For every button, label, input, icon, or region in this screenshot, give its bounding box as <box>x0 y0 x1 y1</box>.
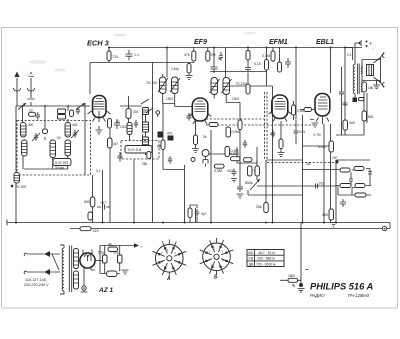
capacitor C33 <box>190 205 199 223</box>
resistor R31 <box>362 111 367 121</box>
trimmer arrows T2 <box>210 79 232 93</box>
capacitor C10 +47 <box>97 205 110 210</box>
svg-text:ECH 3: ECH 3 <box>87 39 110 48</box>
tone network row1 resistor <box>340 168 350 172</box>
capacitor C11 <box>187 113 192 121</box>
ground ECH3 <box>96 126 103 134</box>
svg-text:200 - 588 м: 200 - 588 м <box>257 257 275 261</box>
svg-text:EF9: EF9 <box>194 39 207 46</box>
coil L3b <box>65 140 71 156</box>
dashed AGC verticals <box>265 92 268 160</box>
coil L5 osc <box>126 109 131 119</box>
svg-text:200,220,245 V: 200,220,245 V <box>24 283 49 287</box>
tube EBL1 envelope <box>315 94 330 117</box>
coil box L7c <box>143 137 149 148</box>
resistor R15 0.5M <box>226 127 231 137</box>
capacitor C30 black <box>353 98 358 103</box>
wire heater line <box>180 223 390 229</box>
dashed detector line <box>267 162 336 164</box>
resistor R9 410k <box>329 141 334 152</box>
antenna plug 2 <box>28 72 35 107</box>
wire T1 links <box>163 74 175 107</box>
resistor R20 90k <box>248 166 253 176</box>
resistor R43 <box>246 51 250 61</box>
svg-text:4k7: 4k7 <box>113 142 118 146</box>
IF transformer T1 can A <box>160 77 167 94</box>
svg-text:47k: 47k <box>184 53 190 57</box>
trimmer arrows T1 <box>158 78 180 92</box>
svg-text:450: 450 <box>322 213 328 217</box>
svg-text:102: 102 <box>319 182 325 186</box>
pilot lamp <box>382 226 386 230</box>
svg-text:РАДИО: РАДИО <box>310 293 325 298</box>
wire filter links <box>95 246 138 274</box>
svg-text:25k: 25k <box>142 162 148 166</box>
svg-text:4μ7: 4μ7 <box>201 212 207 216</box>
wire mid vertical rails <box>93 115 303 223</box>
tube EF9 electrodes <box>189 101 212 124</box>
svg-text:25k: 25k <box>256 205 262 209</box>
svg-text:2,45μ: 2,45μ <box>171 67 179 71</box>
wire coil drops from antenna bus <box>23 103 86 175</box>
wire T2 links <box>214 95 240 186</box>
capacitor C28 detector <box>237 185 244 198</box>
svg-text:1302: 1302 <box>120 125 127 129</box>
svg-text:0,5÷2Ω: 0,5÷2Ω <box>55 160 68 165</box>
connector blob <box>299 283 303 287</box>
wire antenna input bus <box>16 106 90 223</box>
capacitor C40 102 <box>316 184 318 189</box>
svg-text:50: 50 <box>57 136 61 140</box>
ground speaker <box>373 81 380 89</box>
resistor R10 450 <box>329 209 334 220</box>
svg-text:1302: 1302 <box>232 97 239 101</box>
capacitor C37 blob <box>335 160 338 163</box>
resistor R38 <box>292 105 296 115</box>
mains lead 2 <box>27 271 60 273</box>
svg-text:AZ 1: AZ 1 <box>98 287 113 294</box>
capacitor C5 top <box>126 50 133 60</box>
misc value labels <box>96 53 352 173</box>
svg-text:1302: 1302 <box>166 97 173 101</box>
svg-text:300: 300 <box>28 123 34 127</box>
capacitor C4 cathode <box>114 119 120 129</box>
trimmer C22 arrow <box>71 130 79 138</box>
ground EBL1 cathode <box>330 223 337 227</box>
resistor R19 <box>244 158 253 162</box>
resistor R13 319 <box>80 227 91 231</box>
coil box L7b <box>143 122 149 132</box>
coil L2 <box>50 140 56 158</box>
switch S2 <box>141 99 153 113</box>
box 0.5+0.8 <box>125 146 152 154</box>
phono contact <box>191 158 195 162</box>
output terminals + - <box>355 41 362 46</box>
volume pot R21 <box>255 166 260 176</box>
svg-text:34F: 34F <box>306 162 312 166</box>
wire screen feed EBL1 <box>295 48 297 120</box>
antenna plug 1 <box>14 72 21 107</box>
capacitor C31 <box>243 140 247 148</box>
tone network row3 resistor <box>355 193 366 197</box>
svg-text:50μ: 50μ <box>113 251 119 255</box>
wire EF9 screen rail <box>210 71 267 73</box>
wire main ground bus <box>7 220 390 226</box>
rectifier AZ1 anodes <box>83 250 95 275</box>
pickup P1 <box>202 150 209 157</box>
svg-text:A: A <box>166 276 171 282</box>
resistor R27 top <box>107 51 111 61</box>
svg-text:+47: +47 <box>100 201 106 205</box>
resistor R37 <box>246 84 250 94</box>
wire feedback rail <box>336 93 367 135</box>
svg-text:1.1: 1.1 <box>134 53 139 57</box>
HT filter resistor R23 <box>108 247 118 252</box>
wire L7 links <box>145 115 147 156</box>
svg-text:КВ: КВ <box>249 251 254 255</box>
svg-text:0,003: 0,003 <box>230 152 239 156</box>
capacitor C12 <box>231 169 237 183</box>
svg-text:0,1: 0,1 <box>347 53 352 57</box>
capacitor C8 <box>285 58 291 68</box>
ground EF9 cathode <box>192 121 199 153</box>
coil L1b <box>22 140 28 156</box>
ground filter <box>120 270 129 275</box>
svg-text:0,15: 0,15 <box>254 62 261 66</box>
speaker clips <box>383 54 385 87</box>
waveband table frame <box>247 250 284 267</box>
resistor R30 <box>362 82 367 92</box>
tube ECH3 electrodes <box>88 99 111 122</box>
dashed AGC lines <box>206 119 316 125</box>
resistor R42 0,15 <box>266 48 268 87</box>
switch S1a <box>18 103 26 110</box>
svg-text:50: 50 <box>218 57 222 61</box>
EBL1 grid cap C27 <box>294 120 299 144</box>
cathode EF9 resistor R26 <box>194 135 198 145</box>
svg-text:0,3M: 0,3M <box>297 109 304 113</box>
tube ECH3 envelope <box>93 96 107 118</box>
capacitor C35 <box>245 66 251 73</box>
svg-text:303: 303 <box>133 110 139 114</box>
wire osc vertical rails <box>99 63 153 223</box>
wire HT bus drop to ECH3 anode <box>90 48 194 95</box>
IF transformer T2 can A <box>211 78 218 95</box>
svg-text:ПЧ-128kHz: ПЧ-128kHz <box>348 293 370 298</box>
resistor R8 400 <box>343 120 348 130</box>
svg-text:48,7 - 91 м: 48,7 - 91 м <box>258 251 275 255</box>
IF transformer T1 can B <box>172 77 179 94</box>
switch S1b <box>76 103 85 110</box>
wire box AGC <box>207 147 257 163</box>
resistor R5 <box>206 51 210 61</box>
wire osc padding rail <box>133 160 135 223</box>
svg-text:2M: 2M <box>211 53 216 57</box>
resistor R18 <box>231 157 241 161</box>
resistor R4 <box>192 51 196 61</box>
speaker frame <box>362 60 381 81</box>
resistor R39 <box>187 64 191 74</box>
tone network caps <box>335 169 372 196</box>
resistor R36 <box>43 129 48 134</box>
trimmer C34 <box>76 108 80 115</box>
resistor R3 <box>108 138 113 148</box>
coil L4 <box>14 173 20 184</box>
wire osc chain <box>163 104 185 170</box>
capacitor C26 EFM1 <box>271 130 275 138</box>
svg-text:180k: 180k <box>288 274 295 278</box>
EBL1 grid resistor R29 <box>304 108 312 112</box>
tone network row2 resistor2 <box>355 184 365 188</box>
trimmer blob C39 <box>168 136 174 141</box>
tone cap C9 <box>340 199 346 207</box>
mains lead 1 <box>27 253 60 255</box>
socket A diagram <box>156 244 184 272</box>
resistor R33 osc chain <box>161 140 165 150</box>
ground EFM1 cathode <box>278 121 285 157</box>
svg-text:PHILIPS 516 A: PHILIPS 516 A <box>310 282 373 292</box>
electrolytic C13 <box>103 255 108 263</box>
svg-text:70-100: 70-100 <box>236 82 247 86</box>
socket B diagram <box>203 243 231 271</box>
svg-text:650k: 650k <box>245 181 253 185</box>
svg-text:25: 25 <box>270 132 274 136</box>
wire top HT bus <box>109 47 362 49</box>
wire aux <box>303 169 340 171</box>
svg-text:0,7M: 0,7M <box>314 133 321 137</box>
resistor R22 <box>264 203 269 213</box>
svg-text:10: 10 <box>29 109 33 113</box>
svg-text:ДВ: ДВ <box>249 262 254 266</box>
coil L3a <box>65 123 71 138</box>
resistor R17 <box>215 164 225 168</box>
resistor R24 <box>29 112 36 116</box>
capacitor C7 <box>219 52 223 60</box>
capacitor C36 <box>339 67 344 135</box>
wire pot links <box>248 160 302 202</box>
paper smudges <box>25 32 256 77</box>
wire osc coil drops <box>120 96 143 141</box>
capacitor C20 <box>36 112 40 120</box>
tone network row2 resistor <box>340 184 351 188</box>
output transformer T2 <box>353 43 362 103</box>
resistor R34 <box>188 208 192 218</box>
resistor R12 <box>88 212 93 220</box>
wire tone net drop <box>303 160 370 223</box>
svg-text:24F: 24F <box>332 156 338 160</box>
svg-text:500: 500 <box>84 200 90 204</box>
dashed box antenna coils <box>17 121 91 176</box>
svg-text:70-100: 70-100 <box>146 81 157 85</box>
coil L1a <box>21 123 27 138</box>
resistor R2 cathode <box>108 119 112 129</box>
capacitor C32 <box>168 156 172 164</box>
switch contact theta <box>156 111 160 115</box>
resistor R16 0.5M <box>225 147 230 157</box>
capacitor C25 osc <box>134 120 138 128</box>
box padding 0.5A <box>53 159 71 166</box>
wire HT verticals EFM1/EBL1 stage <box>273 48 353 94</box>
svg-text:0,5÷0,8: 0,5÷0,8 <box>128 147 142 152</box>
wire HT verticals EF9 stage <box>194 48 226 78</box>
top bus junction dots <box>108 47 346 49</box>
tube EFM1 electrodes <box>269 99 292 122</box>
coil L6 osc <box>127 123 132 135</box>
electrolytic C14 <box>118 255 123 263</box>
svg-text:СВ: СВ <box>249 257 254 261</box>
svg-text:Б: Б <box>214 275 218 281</box>
wire screen feed EF9 <box>247 48 249 87</box>
pickup jack bottom <box>280 223 301 288</box>
cathode EFM1 resistor R28 <box>279 139 283 149</box>
wire coil bottoms <box>23 156 68 169</box>
tube EF9 envelope <box>192 98 208 121</box>
svg-text:425: 425 <box>72 123 78 127</box>
ground EF9 grid <box>186 73 193 80</box>
svg-text:447: 447 <box>227 169 233 173</box>
svg-text:70-100: 70-100 <box>15 185 26 189</box>
node dots on bus <box>22 105 24 107</box>
svg-text:30 мм: 30 мм <box>55 166 64 170</box>
coil box L7a <box>143 108 149 115</box>
trimmer blob C38 <box>158 132 164 138</box>
wire EBL1 anode/screen <box>324 48 353 223</box>
speaker voice coil <box>367 65 374 76</box>
voltage selector link <box>52 254 59 270</box>
resistor R11 500 <box>90 197 95 207</box>
EFM1 top resistor R7 <box>278 62 282 72</box>
svg-text:400: 400 <box>349 121 355 125</box>
tube EFM1 envelope <box>272 95 288 119</box>
svg-text:723 - 2000 м: 723 - 2000 м <box>256 262 276 266</box>
resistor R41 <box>359 98 365 101</box>
power transformer primary <box>62 248 64 291</box>
resistor R35 <box>70 110 74 117</box>
svg-text:EFM1: EFM1 <box>269 39 288 46</box>
rectifier AZ1 envelope <box>80 253 95 268</box>
capacitor C24 osc <box>118 152 123 162</box>
svg-text:2k: 2k <box>203 135 207 139</box>
IF transformer T2 can B <box>223 78 230 95</box>
svg-text:0,1M: 0,1M <box>262 54 270 58</box>
svg-text:319: 319 <box>93 229 99 233</box>
power transformer secondary <box>74 249 79 269</box>
trimmer 70-100 <box>11 185 14 188</box>
svg-text:800: 800 <box>368 115 374 119</box>
filter choke <box>107 271 118 277</box>
svg-text:110,127,145,: 110,127,145, <box>25 278 47 282</box>
AZ1 heater terminal <box>82 286 86 290</box>
resistor R40 180k <box>288 278 298 282</box>
svg-text:0,5M: 0,5M <box>232 130 240 134</box>
svg-text:0,5M: 0,5M <box>214 169 222 173</box>
tube EBL1 electrodes <box>310 97 329 127</box>
capacitor C29 <box>343 100 348 108</box>
dashed box osc coils <box>121 141 159 160</box>
svg-text:27k: 27k <box>113 55 119 59</box>
svg-text:50μ: 50μ <box>98 251 104 255</box>
power transformer core <box>60 245 72 294</box>
svg-text:0,1: 0,1 <box>96 169 101 173</box>
bus junction dots <box>15 222 337 224</box>
svg-text:EBL1: EBL1 <box>316 39 334 46</box>
wire EFM1 grid link <box>175 86 345 146</box>
tone network row1 resistor2 <box>354 167 364 171</box>
capacitor C6 <box>211 64 218 73</box>
resistor R32 <box>238 120 242 130</box>
EF9 anode resistor R14 <box>209 123 218 127</box>
svg-text:470: 470 <box>167 132 173 136</box>
EFM1 top resistor R6 <box>271 51 275 61</box>
resistor R25 osc <box>147 152 151 159</box>
speaker cone <box>374 53 385 88</box>
svg-text:15k: 15k <box>368 86 374 90</box>
box padding 425 <box>58 109 66 114</box>
trimmer C21 arrow <box>32 133 40 141</box>
svg-text:50: 50 <box>116 120 120 124</box>
